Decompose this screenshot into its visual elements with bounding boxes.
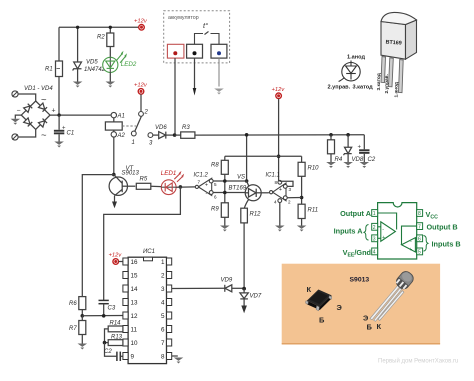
svg-text:−: − [17,108,21,115]
wire pin6 line to thyristor [214,192,246,194]
wire R10 to R11 [301,176,303,204]
svg-text:R1: R1 [45,67,53,73]
wire R2 drop [109,27,111,57]
wire LED1 junction to IC1.2 output [176,186,195,188]
ground bridge minus [11,119,21,125]
op-amp B triangle [402,226,417,253]
photo panel S9013 background [282,264,440,344]
wire contact 3 to VD6 [153,134,159,136]
pin 3 box [167,285,172,292]
svg-text:12: 12 [131,313,139,320]
connector terminal AC top [12,91,18,97]
svg-text:Б: Б [319,316,325,325]
svg-text:VS: VS [237,175,245,181]
svg-text:R10: R10 [308,166,320,172]
svg-text:2: 2 [144,110,149,116]
svg-text:+: + [62,126,66,132]
svg-text:C2: C2 [104,349,112,355]
wire R1 to bridge [58,77,60,116]
comparator IC1.2 [195,178,213,195]
resistor R9 [211,203,228,226]
svg-text:R6: R6 [69,301,77,307]
battery box dashed [164,11,230,63]
svg-text:11: 11 [131,327,138,334]
resistor R10 [298,162,319,176]
thyristor VS BT169 [244,185,268,208]
node junction LED1 output [179,185,183,189]
wire collector junction to R6 branch [82,175,114,297]
wire battery red terminal down [174,58,176,133]
pin 12 box [123,312,128,319]
pin numbers right [161,259,165,361]
svg-text:К: К [377,322,382,331]
svg-text:8: 8 [161,354,165,361]
svg-text:+: + [358,145,362,151]
svg-text:BT169: BT169 [385,40,402,47]
svg-text:8: 8 [275,180,278,185]
pin 7 box [167,339,172,346]
wire rail to R10 [301,156,303,162]
svg-text:ИС1: ИС1 [143,249,155,255]
svg-text:~: ~ [41,130,47,141]
pinout pin 7 box [417,223,423,231]
transistor package TO-92 photo [370,269,416,321]
svg-text:R8: R8 [211,163,219,169]
svg-text:2.управ.: 2.управ. [328,85,351,91]
svg-text:аккумулятор: аккумулятор [168,15,199,21]
svg-text:+: + [409,247,412,253]
IC chip IS1 body [128,249,166,364]
wire R5 to LED1 [151,185,162,187]
svg-text:+: + [52,108,56,115]
svg-text:2: 2 [288,200,291,205]
svg-text:2: 2 [373,225,376,231]
svg-text:+: + [382,235,385,241]
svg-text:3: 3 [373,237,376,243]
battery cell right [211,44,227,58]
resistor R13 [105,335,123,346]
wire battery right terminal [218,58,220,86]
node junction anode pin5 line [245,179,249,183]
node junction R9 pin6 [223,191,227,195]
resistor R5 [136,176,151,189]
svg-text:Output B: Output B [427,223,458,232]
svg-text:Первый дом РемонтХаков.ru: Первый дом РемонтХаков.ru [378,358,458,365]
switch contact 3 [148,133,153,147]
wire R8 to R9 [224,174,226,203]
wire dashed relay to switch [122,125,136,127]
transistor VT S9013 [109,175,135,209]
transistor package BT169 TO-92 [381,12,417,59]
svg-text:3.катод: 3.катод [376,73,382,90]
comparator IC1.1 [270,180,288,202]
svg-text:Б: Б [367,323,373,332]
svg-text:R9: R9 [211,207,219,213]
thyristor symbol BT169 pinout circle [339,61,361,82]
node junction VD5 branch [76,26,79,29]
node junction +12v rail [277,155,281,159]
ground below LED2 [106,82,116,88]
resistor R6 [69,297,86,316]
svg-text:BT169: BT169 [229,186,247,192]
node junction VD6 R3 battery [173,133,177,137]
svg-text:R14: R14 [110,321,122,327]
wire IC1.1 pin3 staple [280,181,294,186]
svg-text:3.катод: 3.катод [353,85,374,91]
svg-text:6: 6 [161,327,165,334]
svg-text:IC1.2: IC1.2 [194,173,209,179]
svg-text:+: + [205,183,208,189]
pinout pin 6 box [417,235,423,243]
wire pin8 to ground [172,355,178,357]
power terminal +12v top [134,19,148,31]
LED LED2 green [103,53,126,73]
svg-text:4: 4 [161,300,165,307]
wire VD5 drop [77,27,79,62]
wire +12v down to IC1.1 pin8 [278,99,280,181]
svg-text:A1: A1 [117,114,125,120]
switch blade contact 1 [131,117,141,147]
svg-text:7: 7 [198,180,201,185]
bridge rectifier VD1-VD4 [21,101,50,129]
svg-text:1N4742: 1N4742 [84,67,106,73]
svg-text:+12v: +12v [272,87,286,93]
capacitor C2 electrolytic right [358,135,376,163]
pin 11 box [123,326,128,333]
wire AC top to bridge [18,94,36,101]
node junction R2 branch [109,26,112,29]
resistor R7 [69,316,86,344]
wire bridge minus to ground [15,115,21,119]
resistor R11 [298,204,318,225]
svg-text:2.управ.: 2.управ. [384,74,390,93]
svg-text:4: 4 [274,200,277,205]
ground below IC1.1 [275,226,285,232]
battery cell middle [187,44,203,58]
pinout pin 5 box [417,248,423,256]
svg-text:S9013: S9013 [122,171,140,177]
pinout pin 2 box [372,223,378,231]
relay terminal A1 [111,112,125,119]
pin 6 box [167,326,172,333]
wire top +12v rail [59,26,142,28]
svg-text:1: 1 [373,211,376,217]
wire R3 to right rail [195,134,364,136]
svg-text:VD6: VD6 [155,125,167,131]
svg-text:VD5: VD5 [86,60,98,66]
pin 2 box [167,272,172,279]
svg-text:R12: R12 [250,212,262,218]
svg-text:A2: A2 [117,133,126,139]
node junction R10 R11 pin2 [300,196,304,200]
svg-text:R3: R3 [182,125,190,131]
node junction C1 [57,113,60,116]
wire +12v to switch contact 2 [140,94,142,111]
brace inputs A [364,225,369,241]
svg-text:К: К [307,285,312,294]
resistor R1 [45,61,63,77]
resistor R3 [175,125,195,138]
svg-text:15: 15 [131,273,139,280]
relay terminal A2 [111,132,125,139]
diode VD7 [240,289,248,314]
wire battery middle terminal arrow [193,58,197,95]
thermal switch link t [195,32,220,45]
svg-text:7: 7 [418,224,421,230]
ground below VD8 [343,162,353,168]
svg-text:R11: R11 [308,208,319,214]
svg-text:6: 6 [214,195,217,200]
wire AC bottom to bridge [18,129,36,137]
op-amp pinout diagram LM393 body [378,203,417,259]
connector terminal AC bottom [12,134,18,140]
wire thyristor anode from R3 rail [246,135,248,181]
node junction VD9 VD7 R12 [242,287,246,291]
op-amp A triangle [378,213,397,241]
svg-text:t°: t° [203,21,208,30]
svg-text:1: 1 [132,140,135,146]
svg-text:VEE/Gnd: VEE/Gnd [343,248,371,258]
package leg 1 [381,57,386,83]
wire IC1.1 output to thyristor [268,191,271,194]
pinout pin 8 box [417,210,423,218]
ground pin8 [174,358,184,364]
node junction R4 [329,133,333,137]
svg-text:LED2: LED2 [121,61,137,68]
svg-text:IC1.1: IC1.1 [266,173,280,179]
svg-text:10: 10 [131,340,139,347]
svg-text:+12v: +12v [134,83,148,89]
pinout pin 3 box [372,235,378,243]
ground below R7 [78,344,88,350]
svg-text:3: 3 [161,286,165,293]
svg-text:VD7: VD7 [250,294,262,300]
svg-text:+12v: +12v [134,19,148,25]
svg-text:5: 5 [161,313,165,320]
zener diode VD5 1N4742 [73,62,82,82]
transistor package SOT-23 [306,290,332,311]
capacitor C3 [99,300,116,315]
svg-text:16: 16 [131,259,139,266]
svg-text:5: 5 [214,182,217,187]
svg-text:LED1: LED1 [161,170,176,177]
svg-text:C1: C1 [67,131,75,137]
ground below R4 [326,162,336,168]
resistor R4 [328,135,343,163]
ground below C1 [54,142,64,148]
power terminal +12v comparator [272,87,286,99]
zener diode VD8 [344,135,352,162]
wire LED2 to ground [109,72,111,81]
ground below VD5 [73,82,83,88]
svg-text:-: - [382,226,384,232]
ground below R11 [297,226,307,232]
pin 10 box [123,339,128,346]
pin numbers left [131,259,139,361]
svg-text:14: 14 [131,286,139,293]
power terminal +12v pin16 [109,252,123,264]
diode VD6 [159,132,175,139]
wire bridge plus to relay [50,114,111,116]
svg-text:-: - [410,239,412,245]
pin 8 box [167,353,172,360]
svg-text:VD9: VD9 [221,278,233,284]
pin 14 box [123,285,128,292]
svg-text:1.анод: 1.анод [394,82,400,97]
pinout pin 1 box [372,210,378,218]
svg-text:8: 8 [418,211,421,217]
node junction R6 R7 [81,314,85,318]
ground below R9 [220,226,230,232]
svg-text:5: 5 [418,250,421,256]
node junction C3 pin12 [102,314,106,318]
svg-text:Inputs A: Inputs A [334,227,364,236]
capacitor C2 timing [104,343,123,361]
svg-text:R5: R5 [140,176,148,182]
svg-text:1.анод: 1.анод [347,55,365,61]
LED LED1 red [161,173,183,195]
battery cell red [167,44,184,58]
resistor R2 [97,33,114,47]
wire pin5 line [214,180,247,182]
pin 13 box [123,299,128,306]
power terminal +12v switch [134,83,148,95]
node junction VT collector [112,173,116,177]
svg-text:Э: Э [337,303,343,312]
svg-text:S9013: S9013 [350,277,370,284]
svg-text:13: 13 [131,300,139,307]
switch contact 2 [139,110,149,117]
pin 4 box [167,299,172,306]
wire LED1 junction down to C3 [104,187,181,301]
pin 5 box [167,312,172,319]
wire R6 R7 junction to pin12 [82,315,123,317]
pin 15 box [123,272,128,279]
wire anode into thyristor [247,181,249,187]
pin 16 box [123,258,128,265]
capacitor C1 electrolytic [54,115,74,141]
resistor R14 [105,321,123,343]
svg-text:C3: C3 [108,306,116,312]
pinout pin 4 box [372,248,378,256]
ground below C2 [360,162,370,168]
wire pin3 to VD9 [172,287,225,289]
node junction R13 R14 C2 [103,341,107,345]
resistor R8 [211,156,228,174]
svg-text:+12v: +12v [109,252,123,258]
svg-text:1: 1 [161,259,165,266]
svg-text:Output A: Output A [340,209,372,218]
node junction anode R3 rail [245,133,249,137]
svg-text:R4: R4 [335,157,343,163]
wire rail R8 to R10 [225,155,302,157]
svg-text:Inputs B: Inputs B [432,240,461,249]
svg-text:7: 7 [161,340,165,347]
svg-text:6: 6 [418,237,421,243]
svg-text:2: 2 [161,273,165,280]
relay coil K1 [105,118,122,132]
wire IC1.1 pin2 to R11 junction [287,197,301,199]
svg-text:+: + [279,187,282,193]
svg-text:9: 9 [131,354,135,361]
svg-text:R2: R2 [97,35,105,41]
resistor R12 [241,208,261,288]
package leg 3 [399,60,404,93]
svg-text:~: ~ [41,95,47,106]
wire R1 drop [58,27,60,61]
svg-text:4: 4 [373,250,376,256]
pin 9 box [123,353,128,360]
node junction R8 R9 pin5 [223,179,227,183]
diode VD9 [225,285,244,292]
wire A2 down to VT collector [113,137,115,176]
wire IC1.1 pin4 to ground [279,203,281,226]
svg-text:VD1 - VD4: VD1 - VD4 [24,86,53,92]
svg-text:Э: Э [363,314,369,323]
svg-text:R7: R7 [69,326,77,332]
pin 1 box [167,258,172,265]
brace inputs B [424,236,429,252]
svg-text:R13: R13 [111,335,123,341]
node junction VD8 [346,133,350,137]
svg-text:3: 3 [289,187,292,192]
package leg 2 [389,58,394,87]
ground battery right [214,89,224,95]
